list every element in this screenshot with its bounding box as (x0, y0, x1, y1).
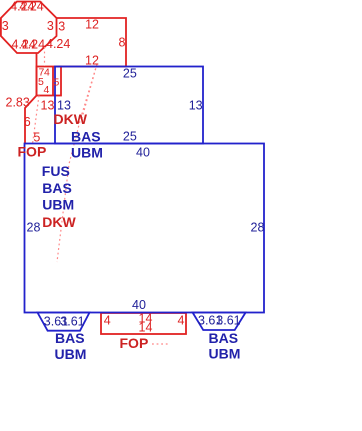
svg-text:4: 4 (44, 67, 50, 79)
svg-text:28: 28 (27, 221, 41, 235)
svg-text:25: 25 (123, 67, 137, 81)
svg-text:12: 12 (85, 54, 99, 68)
svg-text:UBM: UBM (42, 197, 74, 213)
svg-text:4.24: 4.24 (46, 37, 70, 51)
svg-text:13: 13 (189, 99, 203, 113)
svg-text:5: 5 (33, 130, 40, 144)
svg-text:28: 28 (251, 221, 265, 235)
svg-text:UBM: UBM (209, 346, 241, 362)
svg-text:13: 13 (57, 99, 71, 113)
svg-text:6: 6 (24, 115, 31, 129)
svg-text:FUS: FUS (42, 163, 70, 179)
svg-text:3: 3 (2, 19, 9, 33)
svg-text:4: 4 (178, 314, 185, 328)
svg-text:FOP: FOP (120, 335, 149, 351)
svg-text:BAS: BAS (71, 129, 101, 145)
svg-text:UBM: UBM (71, 145, 103, 161)
svg-text:DKW: DKW (42, 214, 76, 230)
svg-text:12: 12 (85, 17, 99, 31)
svg-text:4.24: 4.24 (21, 37, 45, 51)
svg-text:BAS: BAS (55, 330, 85, 346)
svg-text:3.61: 3.61 (216, 314, 240, 328)
svg-text:BAS: BAS (42, 180, 72, 196)
svg-text:40: 40 (136, 146, 150, 160)
svg-text:BAS: BAS (209, 330, 239, 346)
svg-text:UBM: UBM (55, 346, 87, 362)
svg-text:3: 3 (47, 19, 54, 33)
svg-text:13: 13 (41, 99, 55, 113)
svg-text:8: 8 (119, 36, 126, 50)
svg-text:3.61: 3.61 (60, 314, 84, 328)
svg-text:25: 25 (123, 130, 137, 144)
svg-text:DKW: DKW (54, 111, 88, 127)
svg-text:4: 4 (44, 84, 50, 96)
svg-text:2.83: 2.83 (6, 96, 30, 110)
svg-text:4.24: 4.24 (19, 0, 43, 14)
svg-text:FOP: FOP (18, 144, 47, 160)
svg-text:5: 5 (54, 77, 60, 89)
svg-text:3: 3 (58, 20, 65, 34)
svg-text:4: 4 (104, 314, 111, 328)
svg-text:14: 14 (139, 320, 153, 334)
svg-text:40: 40 (132, 298, 146, 312)
